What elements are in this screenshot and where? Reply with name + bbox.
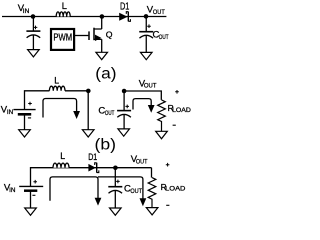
- svg-text:L: L: [54, 76, 59, 86]
- svg-text:L: L: [62, 1, 67, 11]
- svg-text:D1: D1: [88, 152, 97, 163]
- svg-text:IN: IN: [23, 8, 30, 15]
- svg-text:PWM: PWM: [53, 33, 72, 44]
- svg-text:IN: IN: [9, 187, 15, 194]
- svg-text:D1: D1: [120, 1, 130, 12]
- svg-text:OUT: OUT: [136, 158, 148, 165]
- svg-text:OUT: OUT: [159, 34, 169, 41]
- svg-text:OUT: OUT: [130, 188, 142, 195]
- svg-text:OUT: OUT: [153, 9, 165, 16]
- svg-text:L: L: [60, 151, 65, 161]
- svg-text:OUT: OUT: [144, 83, 157, 90]
- svg-text:(a): (a): [95, 65, 116, 82]
- svg-text:IN: IN: [7, 109, 13, 116]
- svg-text:LOAD: LOAD: [165, 186, 186, 193]
- svg-text:(b): (b): [95, 136, 117, 153]
- svg-text:Q: Q: [106, 29, 113, 39]
- svg-text:LOAD: LOAD: [172, 107, 191, 114]
- svg-text:OUT: OUT: [105, 110, 114, 117]
